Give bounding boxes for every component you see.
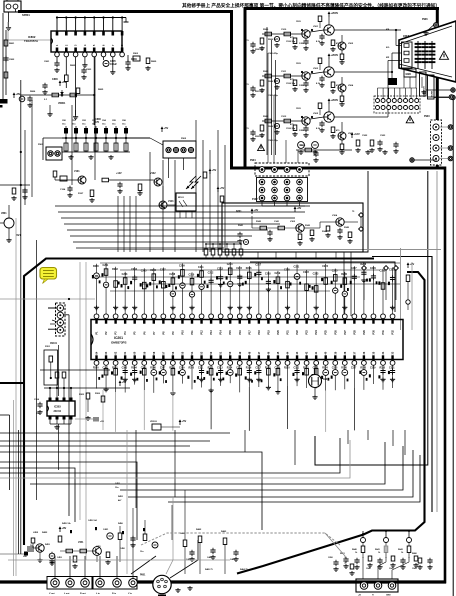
svg-text:N301: N301 xyxy=(236,211,242,213)
svg-text:V901: V901 xyxy=(313,26,319,28)
svg-text:V103: V103 xyxy=(168,201,174,203)
svg-text:C303: C303 xyxy=(122,368,128,370)
svg-text:60: 60 xyxy=(134,351,137,354)
svg-text:C84: C84 xyxy=(102,119,107,122)
svg-text:R456: R456 xyxy=(118,522,124,525)
svg-text:Z201: Z201 xyxy=(45,346,51,348)
svg-text:C224: C224 xyxy=(322,265,328,268)
svg-text:C9: C9 xyxy=(246,128,249,130)
svg-text:P4: P4 xyxy=(124,331,127,335)
svg-text:C911: C911 xyxy=(281,71,287,73)
svg-text:44: 44 xyxy=(287,351,290,354)
svg-text:P24: P24 xyxy=(315,330,318,335)
svg-text:150V: 150V xyxy=(296,108,301,110)
svg-text:P21: P21 xyxy=(287,330,290,335)
svg-text:C203: C203 xyxy=(122,273,128,276)
svg-text:R314: R314 xyxy=(227,367,233,370)
svg-text:C809: C809 xyxy=(131,58,137,61)
svg-text:P14: P14 xyxy=(220,330,223,335)
svg-text:C806: C806 xyxy=(52,78,58,81)
svg-text:40: 40 xyxy=(325,351,328,354)
svg-text:P903: P903 xyxy=(424,115,430,118)
svg-text:P28: P28 xyxy=(353,330,356,335)
svg-text:L60: L60 xyxy=(23,556,28,558)
svg-text:45: 45 xyxy=(277,351,280,354)
svg-text:OM8373PS: OM8373PS xyxy=(111,341,127,345)
svg-text:R680: R680 xyxy=(412,553,418,555)
svg-text:34: 34 xyxy=(382,351,385,354)
svg-text:R453: R453 xyxy=(45,543,51,546)
svg-text:C210: C210 xyxy=(189,273,195,276)
svg-text:+8V: +8V xyxy=(16,92,21,96)
svg-text:C317: C317 xyxy=(255,368,261,370)
svg-text:C329: C329 xyxy=(370,368,376,370)
svg-text:P802: P802 xyxy=(181,138,187,140)
svg-text:C325: C325 xyxy=(332,368,338,370)
svg-text:R465 75: R465 75 xyxy=(205,568,213,571)
svg-text:C214: C214 xyxy=(227,263,233,266)
svg-text:R216: R216 xyxy=(246,267,252,270)
svg-text:R300: R300 xyxy=(93,368,99,370)
svg-text:38: 38 xyxy=(344,351,347,354)
svg-text:43: 43 xyxy=(296,351,299,354)
svg-text:R326: R326 xyxy=(341,368,347,370)
svg-text:R324: R324 xyxy=(322,367,328,370)
svg-text:C801: C801 xyxy=(44,61,50,63)
svg-text:P22: P22 xyxy=(296,330,299,335)
svg-text:R305: R305 xyxy=(79,394,85,396)
svg-text:48: 48 xyxy=(248,351,251,354)
svg-text:C923: C923 xyxy=(380,135,386,137)
svg-text:R226: R226 xyxy=(341,273,347,276)
svg-text:P31: P31 xyxy=(382,330,385,335)
svg-text:10u: 10u xyxy=(62,124,66,126)
svg-text:P801: P801 xyxy=(140,575,146,577)
svg-text:R in: R in xyxy=(112,593,117,595)
svg-text:C208: C208 xyxy=(169,273,175,276)
svg-text:R805: R805 xyxy=(98,89,104,91)
svg-text:+5V: +5V xyxy=(164,126,169,130)
svg-text:C916 33p: C916 33p xyxy=(286,83,296,85)
svg-text:3: 3 xyxy=(75,44,78,46)
svg-text:C640: C640 xyxy=(366,567,372,570)
svg-text:R809: R809 xyxy=(151,61,157,63)
svg-text:C211: C211 xyxy=(198,266,204,269)
svg-text:58: 58 xyxy=(153,351,156,354)
svg-text:C229: C229 xyxy=(370,267,376,270)
svg-text:470: 470 xyxy=(336,129,340,132)
svg-text:P904: P904 xyxy=(250,159,256,162)
svg-text:C453: C453 xyxy=(57,556,63,559)
svg-text:C307: C307 xyxy=(160,368,166,370)
svg-text:C802: C802 xyxy=(9,59,15,61)
svg-text:+9V: +9V xyxy=(254,208,259,212)
svg-text:C321: C321 xyxy=(294,368,300,370)
svg-text:+5V: +5V xyxy=(182,419,187,423)
svg-text:P12: P12 xyxy=(201,330,204,335)
svg-text:V101: V101 xyxy=(74,170,80,173)
svg-text:P25: P25 xyxy=(325,330,328,335)
svg-text:C209: C209 xyxy=(179,265,185,268)
svg-text:R302: R302 xyxy=(112,368,118,370)
svg-text:+9V: +9V xyxy=(297,206,302,210)
svg-text:R316: R316 xyxy=(246,368,252,370)
svg-text:R930 2k2: R930 2k2 xyxy=(255,49,265,51)
svg-text:C642: C642 xyxy=(412,567,418,570)
svg-text:R642: R642 xyxy=(398,548,404,551)
svg-text:37: 37 xyxy=(353,351,356,354)
svg-text:10u: 10u xyxy=(112,124,116,126)
svg-text:24C04: 24C04 xyxy=(54,410,62,413)
svg-text:R306: R306 xyxy=(95,393,101,395)
svg-text:IC201: IC201 xyxy=(114,336,123,340)
svg-text:V904: V904 xyxy=(348,84,354,87)
svg-text:1k: 1k xyxy=(401,552,404,554)
svg-text:R641: R641 xyxy=(375,548,381,551)
svg-text:C305: C305 xyxy=(141,368,147,370)
svg-text:C201: C201 xyxy=(103,264,109,267)
svg-text:P16: P16 xyxy=(239,330,242,335)
svg-text:R345: R345 xyxy=(344,226,350,229)
svg-text:R932 2k2: R932 2k2 xyxy=(255,136,265,138)
svg-text:C9: C9 xyxy=(246,84,249,86)
svg-text:P102: P102 xyxy=(252,198,258,201)
svg-text:P13: P13 xyxy=(210,330,213,335)
svg-text:C920 470p: C920 470p xyxy=(268,52,279,55)
svg-text:C217: C217 xyxy=(255,263,261,266)
svg-text:470: 470 xyxy=(290,123,294,126)
svg-text:V801: V801 xyxy=(1,212,7,215)
svg-text:V out: V out xyxy=(49,592,55,595)
svg-text:XS101: XS101 xyxy=(50,343,58,345)
svg-text:4: 4 xyxy=(84,44,87,46)
svg-text:+200V: +200V xyxy=(331,98,339,102)
svg-text:C230: C230 xyxy=(380,270,386,273)
svg-text:56: 56 xyxy=(172,351,175,354)
svg-text:R802: R802 xyxy=(70,65,76,67)
svg-text:R455 10k: R455 10k xyxy=(62,522,72,525)
svg-text:P15: P15 xyxy=(229,330,232,335)
svg-text:4k7: 4k7 xyxy=(118,499,122,502)
svg-text:P26: P26 xyxy=(334,330,337,335)
svg-text:+8V: +8V xyxy=(62,80,67,84)
svg-text:75: 75 xyxy=(352,211,355,213)
svg-text:C910: C910 xyxy=(281,29,287,31)
svg-text:P27: P27 xyxy=(344,330,347,335)
svg-text:39: 39 xyxy=(334,351,337,354)
svg-text:64: 64 xyxy=(96,351,99,354)
svg-text:P5: P5 xyxy=(134,331,137,335)
svg-text:V303: V303 xyxy=(290,221,296,223)
svg-text:C327: C327 xyxy=(351,368,357,370)
svg-text:42: 42 xyxy=(306,351,309,354)
svg-text:P23: P23 xyxy=(306,330,309,335)
svg-text:470: 470 xyxy=(290,36,294,39)
svg-text:R320: R320 xyxy=(284,368,290,370)
svg-text:P29: P29 xyxy=(363,330,366,335)
svg-text:C916 33p: C916 33p xyxy=(286,41,296,43)
svg-text:C912: C912 xyxy=(281,116,287,118)
svg-text:P3: P3 xyxy=(115,331,118,335)
svg-text:57: 57 xyxy=(162,351,165,354)
svg-text:P10: P10 xyxy=(181,330,184,335)
svg-text:C341: C341 xyxy=(274,220,280,223)
svg-text:KR: KR xyxy=(386,57,390,59)
svg-text:470: 470 xyxy=(290,78,294,81)
svg-text:R926 1k: R926 1k xyxy=(268,126,277,128)
svg-text:62: 62 xyxy=(115,351,118,354)
svg-text:C82: C82 xyxy=(82,120,87,122)
svg-text:VD303: VD303 xyxy=(150,421,157,423)
svg-text:C309: C309 xyxy=(179,368,185,370)
svg-text:CRT: CRT xyxy=(403,34,409,38)
svg-text:R318: R318 xyxy=(265,368,271,370)
svg-text:R341: R341 xyxy=(238,224,244,227)
svg-text:C219: C219 xyxy=(274,272,280,275)
svg-text:C104: C104 xyxy=(60,188,66,191)
svg-text:61: 61 xyxy=(124,351,127,354)
svg-text:C9: C9 xyxy=(246,40,249,42)
svg-text:SP801: SP801 xyxy=(22,13,30,17)
svg-text:150V: 150V xyxy=(296,63,301,65)
svg-text:R out: R out xyxy=(80,592,86,595)
svg-text:+12V: +12V xyxy=(116,172,122,175)
svg-text:R308: R308 xyxy=(169,368,175,370)
svg-text:C451: C451 xyxy=(115,482,121,485)
svg-text:52: 52 xyxy=(210,351,213,354)
svg-text:P32: P32 xyxy=(392,330,395,335)
svg-text:10u: 10u xyxy=(115,487,119,489)
svg-text:R451: R451 xyxy=(118,495,124,498)
svg-text:C85: C85 xyxy=(112,120,117,122)
svg-text:0.1: 0.1 xyxy=(44,99,48,101)
svg-text:C223: C223 xyxy=(313,273,319,276)
svg-text:C212: C212 xyxy=(208,271,214,274)
svg-text:R342: R342 xyxy=(256,220,262,223)
svg-text:R200: R200 xyxy=(93,265,99,268)
svg-text:P8: P8 xyxy=(162,331,165,335)
svg-text:R452: R452 xyxy=(42,531,48,534)
svg-text:P30: P30 xyxy=(372,330,375,335)
svg-text:+200V: +200V xyxy=(331,11,339,15)
svg-text:V304: V304 xyxy=(332,214,338,217)
svg-text:R304: R304 xyxy=(131,367,137,370)
svg-text:TDA7057A: TDA7057A xyxy=(24,39,38,43)
svg-text:41: 41 xyxy=(315,351,318,354)
svg-text:IC303: IC303 xyxy=(54,406,61,409)
svg-text:10u: 10u xyxy=(122,124,126,126)
svg-text:C922: C922 xyxy=(362,135,368,137)
svg-text:63: 63 xyxy=(105,351,108,354)
svg-text:C304: C304 xyxy=(34,398,40,401)
svg-text:R344: R344 xyxy=(322,230,328,233)
svg-text:R806: R806 xyxy=(30,91,36,93)
svg-text:V451: V451 xyxy=(96,545,102,548)
svg-text:47: 47 xyxy=(258,351,261,354)
svg-text:P20: P20 xyxy=(277,330,280,335)
svg-text:C80: C80 xyxy=(62,120,67,122)
svg-text:P6: P6 xyxy=(143,331,146,335)
svg-text:+5V: +5V xyxy=(220,186,225,190)
svg-text:SCRN: SCRN xyxy=(432,90,434,97)
svg-text:53: 53 xyxy=(201,351,204,354)
svg-text:+5V: +5V xyxy=(100,421,104,423)
svg-text:51: 51 xyxy=(220,351,223,354)
svg-text:C81: C81 xyxy=(72,120,77,122)
svg-text:R328: R328 xyxy=(360,368,366,370)
svg-text:P7: P7 xyxy=(153,331,156,335)
svg-text:10u: 10u xyxy=(102,124,106,126)
svg-text:1k: 1k xyxy=(378,552,381,554)
svg-text:V905: V905 xyxy=(313,113,319,115)
svg-text:VD801: VD801 xyxy=(58,102,66,105)
svg-text:33: 33 xyxy=(392,351,395,354)
svg-text:C204: C204 xyxy=(131,268,137,271)
svg-text:P2: P2 xyxy=(105,331,108,335)
svg-text:+5V: +5V xyxy=(212,168,217,172)
svg-text:1k: 1k xyxy=(355,552,358,554)
svg-text:R640: R640 xyxy=(352,548,358,551)
svg-text:R306: R306 xyxy=(150,368,156,370)
svg-text:+8V: +8V xyxy=(62,526,67,530)
svg-text:36: 36 xyxy=(363,351,366,354)
svg-text:100uF: 100uF xyxy=(110,63,117,66)
svg-text:10u: 10u xyxy=(140,551,144,553)
svg-text:1: 1 xyxy=(56,44,59,46)
svg-text:35: 35 xyxy=(372,351,375,354)
svg-text:R464 75: R464 75 xyxy=(240,568,248,571)
svg-text:R920: R920 xyxy=(263,29,269,31)
svg-text:P1: P1 xyxy=(96,331,99,335)
svg-text:C311: C311 xyxy=(198,368,204,370)
svg-text:R312: R312 xyxy=(208,368,214,370)
svg-text:R107: R107 xyxy=(78,193,84,195)
svg-text:V451: V451 xyxy=(78,541,84,544)
svg-text:GND: GND xyxy=(406,73,412,76)
svg-text:C451: C451 xyxy=(103,528,109,531)
svg-text:P19: P19 xyxy=(267,330,270,335)
svg-text:R322: R322 xyxy=(303,368,309,370)
svg-text:R310: R310 xyxy=(189,368,195,370)
svg-text:R931 2k2: R931 2k2 xyxy=(255,91,265,93)
svg-text:C218: C218 xyxy=(265,272,271,275)
svg-text:C650: C650 xyxy=(328,557,334,559)
svg-text:C222: C222 xyxy=(303,271,309,274)
svg-text:L in: L in xyxy=(96,593,101,595)
svg-text:C331: C331 xyxy=(389,368,395,370)
svg-text:R343: R343 xyxy=(305,224,311,227)
svg-text:V in: V in xyxy=(128,593,133,595)
svg-text:C922 470p: C922 470p xyxy=(268,139,279,142)
svg-text:C319: C319 xyxy=(274,368,280,370)
svg-text:V102: V102 xyxy=(150,172,156,175)
svg-text:P18: P18 xyxy=(258,330,261,335)
svg-text:5: 5 xyxy=(93,44,96,46)
svg-text:P11: P11 xyxy=(191,330,194,335)
svg-text:10u: 10u xyxy=(82,124,86,126)
svg-text:C206: C206 xyxy=(150,269,156,272)
svg-text:59: 59 xyxy=(143,351,146,354)
svg-text:V452: V452 xyxy=(33,531,39,534)
svg-text:49: 49 xyxy=(239,351,242,354)
svg-text:54: 54 xyxy=(191,351,194,354)
svg-text:R926 1k: R926 1k xyxy=(268,39,277,41)
svg-text:C323: C323 xyxy=(313,368,319,370)
svg-text:X201: X201 xyxy=(323,378,329,381)
svg-text:L out: L out xyxy=(64,592,70,595)
svg-text:R462: R462 xyxy=(196,528,202,531)
svg-text:6: 6 xyxy=(103,44,106,46)
svg-text:C916 33p: C916 33p xyxy=(286,128,296,130)
svg-text:C86: C86 xyxy=(122,120,127,122)
svg-text:Z802: Z802 xyxy=(133,53,139,55)
svg-text:46: 46 xyxy=(267,351,270,354)
svg-text:C450: C450 xyxy=(120,547,126,550)
svg-text:R801: R801 xyxy=(9,43,15,45)
svg-text:KG: KG xyxy=(386,47,390,49)
svg-text:2: 2 xyxy=(65,44,68,46)
svg-text:R202: R202 xyxy=(112,268,118,271)
svg-text:C315: C315 xyxy=(236,368,242,370)
svg-text:V903: V903 xyxy=(313,68,319,70)
svg-text:C313: C313 xyxy=(217,368,223,370)
svg-text:10u: 10u xyxy=(72,124,76,126)
svg-text:R330: R330 xyxy=(380,368,386,370)
svg-text:IR101: IR101 xyxy=(178,197,185,199)
svg-text:R926 1k: R926 1k xyxy=(268,81,277,83)
svg-text:150V: 150V xyxy=(296,21,301,23)
svg-text:7: 7 xyxy=(112,44,115,46)
svg-text:55: 55 xyxy=(181,351,184,354)
svg-text:R930: R930 xyxy=(300,145,306,147)
svg-text:+200V: +200V xyxy=(331,53,339,57)
svg-text:C301: C301 xyxy=(103,368,109,370)
svg-text:+12V: +12V xyxy=(354,132,360,136)
svg-text:+5V: +5V xyxy=(122,380,127,384)
svg-text:V902: V902 xyxy=(348,43,354,45)
svg-text:50: 50 xyxy=(229,351,232,354)
svg-text:C455 104: C455 104 xyxy=(88,519,98,522)
svg-text:P9: P9 xyxy=(172,331,175,335)
svg-text:C803: C803 xyxy=(86,69,92,71)
svg-text:C221: C221 xyxy=(294,265,300,268)
svg-text:C921 470p: C921 470p xyxy=(268,94,279,97)
svg-text:P17: P17 xyxy=(248,330,251,335)
svg-text:P906: P906 xyxy=(422,18,428,21)
svg-text:C641: C641 xyxy=(389,567,395,570)
